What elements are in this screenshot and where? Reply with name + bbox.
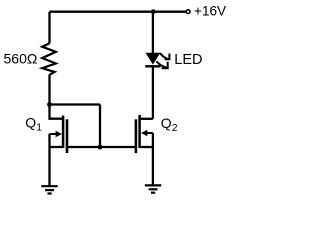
wire Q1 source/body vertical to ground bbox=[48, 134, 50, 186]
LED D1 triangle bbox=[146, 53, 161, 65]
node rail/LED junction dot bbox=[151, 9, 156, 14]
svg-text:560Ω: 560Ω bbox=[4, 50, 38, 66]
LED emission arrow 2 bbox=[156, 61, 166, 68]
wire node A to feedback corner bbox=[50, 103, 101, 105]
wire Q2 source lead bbox=[140, 146, 153, 148]
svg-text:Q2: Q2 bbox=[161, 115, 178, 134]
wire top rail +16V bbox=[50, 11, 187, 13]
transistor Q2 body arrow bbox=[146, 132, 153, 134]
LED emission arrow 1 bbox=[160, 53, 169, 59]
svg-text:Q1: Q1 bbox=[25, 115, 42, 134]
transistor Q1 channel bar bbox=[62, 116, 65, 149]
svg-text:+16V: +16V bbox=[194, 4, 226, 19]
transistor Q1 body arrow bbox=[50, 133, 57, 135]
resistor R 560ohm zigzag bbox=[42, 43, 56, 74]
wire Q1 source lead bbox=[50, 146, 63, 148]
node A resistor/Q1-drain junction dot bbox=[47, 102, 52, 107]
ground GND2 bbox=[145, 185, 161, 192]
node B gate-bus junction dot bbox=[98, 145, 103, 150]
wire Q2 drain lead bbox=[140, 118, 153, 120]
wire LED cathode to Q2 drain bbox=[152, 66, 154, 119]
ground GND1 bbox=[41, 186, 57, 193]
wire rail to resistor top bbox=[48, 12, 50, 44]
wire gate bus Q1 gate to Q2 gate bbox=[67, 146, 136, 148]
transistor Q2 gate bar bbox=[135, 119, 138, 153]
LED D1 cathode bar bbox=[145, 65, 160, 67]
LED wire anode from rail bbox=[152, 12, 154, 53]
wire Q2 source/body vertical to ground bbox=[152, 133, 154, 185]
terminal +16V open circle bbox=[186, 10, 190, 14]
transistor Q2 channel bar bbox=[138, 115, 141, 148]
wire Q1 drain lead bbox=[50, 105, 63, 119]
svg-text:LED: LED bbox=[174, 52, 202, 68]
wire resistor bottom to node A bbox=[48, 75, 50, 105]
transistor Q1 gate bar bbox=[66, 119, 69, 153]
wire feedback vertical down to gate bus bbox=[99, 105, 101, 148]
